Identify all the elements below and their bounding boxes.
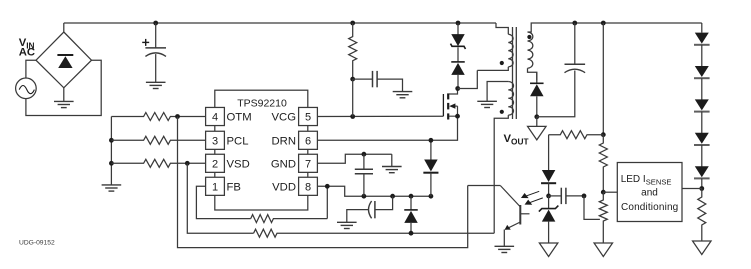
diode D7 aux-VDD [404, 196, 418, 233]
resistor R7 [549, 131, 604, 139]
LED D12 string [694, 78, 710, 111]
LED opto U2 emitter [541, 170, 556, 196]
svg-text:8: 8 [305, 181, 311, 193]
node B [601, 190, 606, 195]
wire R7 to opto LED [548, 135, 550, 170]
svg-text:UDG-09152: UDG-09152 [19, 240, 55, 247]
wire VCG to gate [317, 115, 443, 117]
phase dot primary [500, 61, 504, 65]
LED D14 string [694, 145, 710, 178]
wire secondary top rail [528, 23, 702, 32]
pin 1 FB [206, 177, 225, 195]
ground flag V_OUT [528, 126, 547, 139]
wire node B to sense box [603, 191, 617, 193]
wire V_OUT to C6 [537, 71, 575, 117]
wire GND pin [317, 154, 391, 163]
wire AC source bottom loop to bridge right [26, 60, 101, 115]
wire C5 right [375, 196, 393, 209]
wire left bus [110, 117, 112, 185]
pin 5 VCG [299, 107, 318, 125]
ground chain [594, 243, 613, 257]
transformer T1 core [513, 27, 517, 119]
bridge rectifier D1 [36, 32, 92, 88]
ground aux [477, 101, 497, 107]
capacitor C7 [561, 188, 566, 204]
zener D2 clamp top [451, 23, 465, 46]
LED D13 string [694, 112, 710, 145]
svg-text:5: 5 [305, 112, 311, 124]
wire bridge to ground [63, 88, 65, 102]
diode D6 DRN-VDD [423, 139, 438, 196]
node drain [455, 86, 460, 91]
resistor R3 (VSD) [111, 159, 205, 167]
wire C5 left to ground [347, 210, 369, 223]
node VDD-C4 [362, 194, 367, 199]
wire OTM row down to opto collector [178, 117, 468, 248]
AC source V_IN [16, 78, 37, 99]
capacitor C1 bulk input [142, 23, 166, 82]
wire bridge output to top rail [63, 23, 65, 32]
phase dot secondary [527, 35, 531, 39]
ground LED string [693, 241, 712, 255]
node opto LED cathode [546, 194, 551, 199]
wire primary bottom [477, 67, 508, 71]
svg-text:3: 3 [212, 135, 218, 147]
wire C4 top [363, 154, 365, 169]
pin 6 DRN [299, 131, 318, 149]
ground bridge [54, 101, 74, 107]
svg-text:and: and [641, 188, 658, 199]
wire to V_OUT flag [536, 117, 538, 127]
svg-text:DRN: DRN [272, 135, 296, 147]
pin 3 PCL [206, 131, 225, 149]
wire R4 to VCG [352, 79, 354, 116]
svg-text:7: 7 [305, 158, 311, 170]
node D7 bottom [409, 231, 414, 236]
svg-text:2: 2 [212, 158, 218, 170]
node rail-R4 [350, 21, 355, 26]
LED D10 string [694, 33, 710, 45]
node rail-clamp [456, 21, 461, 26]
wire to C3 [353, 78, 373, 80]
wire to C7 [549, 195, 562, 197]
node VSD tap [185, 161, 190, 166]
wire opto collector [468, 185, 501, 187]
node DRN-D6 [429, 138, 434, 143]
wire AC source top to bridge left [26, 60, 36, 78]
svg-text:4: 4 [212, 112, 218, 124]
transformer secondary winding [528, 32, 533, 68]
wire bottom rail up to aux winding [494, 115, 508, 233]
transistor Q1 MOSFET [443, 93, 448, 119]
transformer primary winding [508, 34, 513, 67]
wire rail to primary top [496, 23, 508, 34]
resistor R8 [599, 135, 607, 193]
wire C7 to chain [584, 196, 600, 220]
node OTM tap [175, 114, 180, 119]
node rail-C1 [153, 21, 158, 26]
node LED sense [699, 186, 704, 191]
wire R5 to VDD node [326, 186, 328, 218]
node VDD-C5 [390, 194, 395, 199]
node GND-C4 [362, 152, 367, 157]
capacitor C6 output [565, 23, 586, 73]
pin 4 OTM [206, 107, 225, 125]
node rail-C6 [572, 21, 577, 26]
wire secondary bottom [528, 68, 537, 80]
opto light arrows [522, 191, 543, 204]
wire opto emitter to ground [503, 230, 505, 247]
resistor R9 [599, 192, 607, 243]
wire aux top to ground [487, 82, 508, 102]
ground C1 [146, 82, 166, 88]
node A [601, 132, 606, 137]
IC U1 TPS92210 body [215, 90, 308, 210]
node VCG [350, 114, 355, 119]
wire to ground GND pin [391, 154, 393, 166]
node C7 [582, 194, 587, 199]
svg-text:VCG: VCG [272, 112, 296, 124]
wire C3 to ground [377, 79, 402, 92]
capacitor C4 VDD bypass [355, 169, 373, 174]
wire DRN pin to MOSFET source [317, 116, 457, 140]
block LED I_SENSE and Conditioning [617, 163, 682, 222]
resistor R10 sense [698, 189, 706, 242]
svg-text:1: 1 [212, 181, 218, 193]
node MOSFET source [455, 114, 460, 119]
node VDD-D7 [409, 194, 414, 199]
capacitor C3 gate [373, 71, 378, 87]
phase dot aux [500, 110, 504, 114]
ground C5 [337, 222, 357, 228]
node bus-R2 [109, 138, 114, 143]
svg-text:GND: GND [271, 158, 296, 170]
node VDD-R5 [325, 184, 330, 189]
diode D3 clamp [451, 47, 465, 88]
zener D5 opto [539, 196, 559, 243]
resistor R1 (OTM) [111, 113, 205, 121]
resistor R4 gate bias [349, 23, 357, 79]
ground opto emitter [495, 246, 515, 252]
wire VDD pin to VDD rail [317, 186, 431, 196]
transformer aux winding [508, 82, 513, 116]
node VDD-D6 [429, 194, 434, 199]
wire FB pin to R5 [196, 186, 250, 218]
transistor Q2 opto phototransistor [500, 186, 529, 230]
svg-text:6: 6 [305, 135, 311, 147]
svg-text:PCL: PCL [227, 135, 249, 147]
LED D11 string [694, 45, 710, 78]
ground GND pin [382, 167, 402, 173]
resistor R2 (PCL) [111, 136, 205, 144]
wire rail down to node A [602, 23, 604, 135]
wire C4 bottom [363, 174, 365, 196]
ground C3 [393, 92, 413, 98]
pin 2 VSD [206, 154, 225, 172]
wire primary top rail [64, 22, 496, 24]
svg-text:Conditioning: Conditioning [621, 202, 678, 213]
node rail-chain [601, 21, 606, 26]
resistor R5 (FB-VDD) [251, 215, 328, 223]
wire box to LED sense node [682, 188, 702, 190]
svg-text:TPS92210: TPS92210 [237, 98, 287, 110]
ground opto LED [539, 243, 558, 257]
wire VSD row down to bottom rail [187, 163, 253, 233]
diode D4 output rectifier [530, 72, 544, 117]
capacitor C5 VDD electrolytic [369, 201, 375, 218]
ground left bus [102, 185, 122, 191]
wire C7 right [566, 195, 584, 197]
wire to LED string [701, 23, 703, 33]
svg-text:VDD: VDD [272, 181, 296, 193]
svg-text:VSD: VSD [227, 158, 250, 170]
pin 8 VDD [299, 177, 318, 195]
pin 7 GND [299, 154, 318, 172]
svg-text:FB: FB [227, 181, 241, 193]
wire primary bottom to drain [458, 70, 478, 88]
svg-text:OTM: OTM [227, 112, 252, 124]
node V_OUT [534, 114, 539, 119]
node R4-C3 [350, 77, 355, 82]
wire LED string to sense [701, 178, 703, 188]
resistor R6 (VSD-aux) [254, 229, 495, 237]
svg-text:AC: AC [19, 47, 35, 59]
node bus-R3 [109, 161, 114, 166]
